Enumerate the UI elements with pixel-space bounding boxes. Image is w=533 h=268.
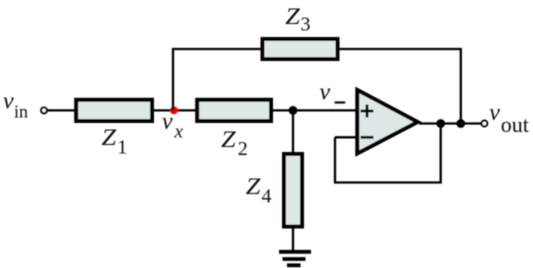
ground xyxy=(279,252,311,265)
wire Z3 to output column xyxy=(338,49,461,124)
op-amp minus input symbol xyxy=(361,136,374,139)
op-amp plus input symbol xyxy=(361,105,374,118)
wire Z1 to Z2 xyxy=(154,109,197,111)
resistor Z2 xyxy=(197,100,271,121)
label Z4 xyxy=(246,174,272,208)
output terminal xyxy=(482,121,488,127)
input terminal xyxy=(41,108,47,114)
node v_x (red) xyxy=(170,107,178,115)
junction dot Z3/output xyxy=(456,119,465,128)
wire input to Z1 xyxy=(47,109,76,111)
svg-text:Z: Z xyxy=(246,174,261,199)
svg-text:v: v xyxy=(162,109,173,135)
svg-text:Z: Z xyxy=(102,125,117,150)
wire v_x up and over to Z3 xyxy=(173,49,262,110)
label v_in xyxy=(3,89,28,122)
feedback wire from minus input to output xyxy=(335,124,441,183)
svg-text:v: v xyxy=(489,100,500,126)
junction node after Z2 xyxy=(289,106,298,115)
svg-text:Z: Z xyxy=(221,127,236,152)
label Z1 xyxy=(102,125,128,159)
label v_minus xyxy=(320,80,346,106)
svg-text:v: v xyxy=(320,80,331,106)
label v_out xyxy=(489,100,529,137)
op-amp U1 xyxy=(357,90,417,154)
svg-text:3: 3 xyxy=(301,13,311,35)
label v_x xyxy=(162,109,184,143)
wire junction down to Z4 xyxy=(292,110,294,155)
svg-text:v: v xyxy=(3,89,14,115)
wire Z4 to ground xyxy=(292,226,294,252)
svg-text:2: 2 xyxy=(238,138,248,160)
junction dot feedback/output xyxy=(436,119,445,128)
svg-text:1: 1 xyxy=(117,137,127,159)
feedback impedance Z3 xyxy=(263,39,338,59)
svg-text:in: in xyxy=(14,102,28,122)
svg-text:out: out xyxy=(501,112,529,137)
svg-text:Z: Z xyxy=(285,4,300,29)
impedance Z4 (vertical) xyxy=(284,154,302,227)
wire minus input stub xyxy=(335,136,357,138)
label Z2 xyxy=(221,127,248,160)
output wire xyxy=(419,122,481,124)
wire Z2 to op-amp + input xyxy=(271,109,357,111)
label Z3 xyxy=(285,4,310,35)
resistor Z1 xyxy=(76,100,152,121)
svg-text:x: x xyxy=(174,122,184,143)
svg-text:4: 4 xyxy=(262,186,272,208)
